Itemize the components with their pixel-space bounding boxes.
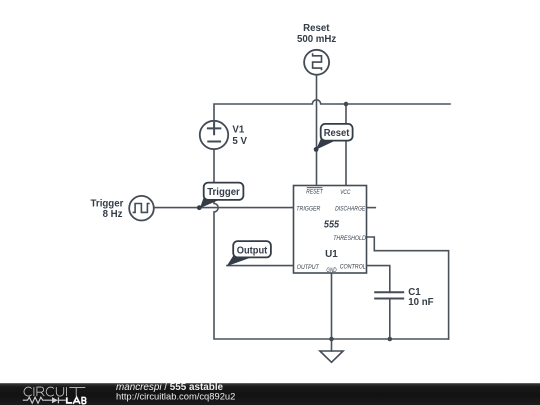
square wave source V2 (Reset 500 mHz) [304,50,329,75]
footer title text [116,382,235,401]
svg-text:RESET: RESET [306,189,323,196]
svg-text:Reset: Reset [303,23,330,34]
op-amp U1 555 timer box [294,186,367,274]
node junction GND / bottom rail [329,337,334,342]
pin label OUTPUT [297,264,320,271]
svg-text:CONTROL: CONTROL [340,264,366,271]
svg-text:U1: U1 [325,249,338,260]
node junction C1 / bottom rail [388,337,393,342]
wire GND pin to ground [331,273,333,351]
wire DISCHARGE stub [367,207,376,209]
svg-text:555: 555 [324,220,340,231]
svg-text:V1: V1 [232,125,244,136]
wire THRESHOLD to bottom rail [367,237,449,339]
svg-text:8 Hz: 8 Hz [103,209,123,220]
wire trigger source to TRIGGER pin [154,207,294,209]
label Trigger 8 Hz [91,198,124,220]
label Reset 500 mHz [297,23,336,45]
svg-text:GND: GND [326,267,336,274]
wire C1 bottom to bottom rail [389,299,391,340]
flag Output [227,241,271,266]
svg-text:Reset: Reset [324,128,350,139]
flag Reset [314,124,353,152]
wire CONTROL to C1 [367,266,390,293]
svg-text:500 mHz: 500 mHz [297,34,336,45]
svg-text:VCC: VCC [340,189,350,196]
wire VCC from top rail [345,104,347,186]
svg-text:Trigger: Trigger [91,198,124,209]
pin label RESET [306,188,323,196]
svg-text:DISCHARGE: DISCHARGE [335,205,366,212]
label V1 value [232,125,247,147]
ground [320,351,343,362]
svg-text:THRESHOLD: THRESHOLD [333,235,366,242]
pin label VCC [340,189,350,196]
label U1 [325,249,338,260]
svg-text:10 nF: 10 nF [408,297,433,308]
flag Trigger [197,183,243,211]
logo resistor + diode + LAB [23,397,86,404]
svg-text:Trigger: Trigger [207,187,240,198]
wire reset source to RESET pin [316,75,318,186]
svg-text:Output: Output [237,245,268,256]
wire OUTPUT pin stub [227,265,294,267]
voltage source V1 [200,121,228,149]
pin label CONTROL [340,264,366,271]
label 555 [324,220,340,231]
label C1 value [408,287,433,308]
capacitor C1 [374,292,404,298]
footer bar [0,383,540,405]
logo CIRCUIT lettering [24,387,85,396]
square wave source V3 (Trigger 8 Hz) [129,196,154,221]
pin label DISCHARGE [335,205,366,212]
wire V1- down with hop over trigger wire, then bottom rail [214,149,449,339]
pin label TRIGGER [296,205,320,212]
pin label THRESHOLD [333,235,366,242]
svg-text:TRIGGER: TRIGGER [296,205,320,212]
svg-text:OUTPUT: OUTPUT [297,264,320,271]
wire top rail V1+ to right end with hop over reset wire [214,100,450,121]
svg-text:5 V: 5 V [232,136,247,147]
svg-text:http://circuitlab.com/cq892u2: http://circuitlab.com/cq892u2 [116,390,235,401]
node junction top rail / VCC [344,102,349,107]
pin label GND [326,267,336,274]
